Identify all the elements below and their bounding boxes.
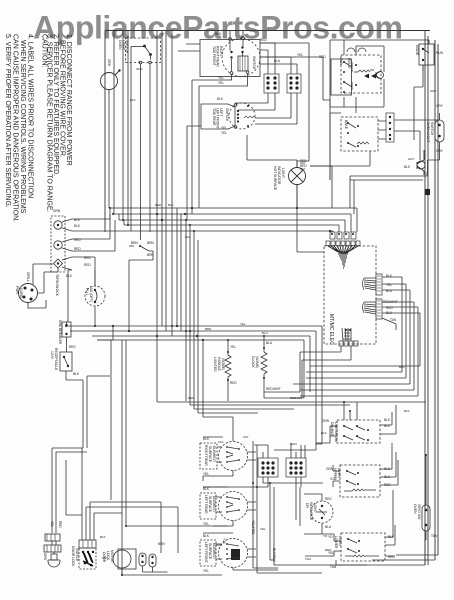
border tick mark — [425, 189, 430, 195]
wires RB2 — [333, 443, 398, 487]
wire x113 down — [97, 326, 113, 500]
wires door switch — [414, 40, 429, 140]
svg-text:HANDLE: HANDLE — [217, 357, 221, 371]
svg-text:RIGHT: RIGHT — [219, 46, 223, 57]
wires S5 — [425, 455, 426, 540]
surface element SE2 — [200, 487, 248, 526]
wires RB1 — [316, 402, 396, 443]
long verticals bottom-center — [253, 441, 322, 573]
wires from SW1 bottom to bus — [131, 47, 150, 241]
relay box K1 (double line lock) — [331, 48, 381, 95]
wires RB3 — [305, 490, 395, 556]
svg-text:DR: DR — [305, 503, 309, 508]
svg-text:SURFACE: SURFACE — [208, 543, 212, 560]
svg-text:BLK: BLK — [404, 409, 410, 413]
connector CN3 (3x3 grid) — [258, 458, 278, 477]
junction dots on bus — [156, 207, 331, 232]
connector J2 (pin column) — [386, 113, 394, 142]
svg-text:BLK: BLK — [130, 98, 136, 102]
svg-text:RED: RED — [325, 548, 332, 552]
svg-text:VENT SW: VENT SW — [417, 504, 421, 520]
svg-text:INDICATOR: INDICATOR — [277, 166, 281, 185]
svg-text:SWITCH: SWITCH — [430, 122, 434, 136]
svg-text:TOD FRONT: TOD FRONT — [212, 46, 216, 66]
svg-text:LIGHTED: LIGHTED — [213, 357, 217, 372]
svg-text:DOOR LOCK: DOOR LOCK — [71, 546, 75, 567]
svg-text:RED: RED — [69, 345, 76, 349]
wires left column (from top border down) — [109, 31, 150, 240]
right border bundle — [425, 31, 438, 565]
svg-text:DLB: DLB — [339, 58, 343, 65]
bottom border joins — [372, 555, 438, 565]
wire x122,x126 down — [122, 340, 227, 575]
svg-text:WHEN SERVICING CONTROLS. WIRIN: WHEN SERVICING CONTROLS. WIRING PROBLEMS — [19, 40, 26, 214]
bake relay RB1 (bottom right dashed box) — [322, 418, 391, 443]
svg-text:RED: RED — [84, 263, 91, 267]
svg-text:GRY: GRY — [408, 157, 414, 161]
svg-text:MOTOR: MOTOR — [110, 550, 114, 563]
svg-text:BLK: BLK — [168, 203, 174, 207]
svg-text:YEL: YEL — [240, 322, 246, 326]
door lock motor M1 — [102, 549, 136, 569]
wire from S4 — [129, 246, 153, 331]
wire x157 x162 to bus2 — [157, 232, 162, 402]
connector P6 bottom of board — [339, 328, 358, 346]
svg-text:LIGHT: LIGHT — [313, 503, 317, 513]
svg-text:MT/MC ELEC: MT/MC ELEC — [328, 314, 334, 345]
svg-text:BLU: BLU — [262, 331, 268, 335]
wire x157 — [156, 31, 158, 232]
svg-text:TAN: TAN — [330, 565, 337, 569]
verticals x177-x203 down to bends — [177, 208, 203, 417]
door lock switch assembly — [71, 540, 96, 569]
transistor Q2 junction right — [404, 150, 425, 175]
svg-text:BRN: BRN — [216, 543, 222, 547]
svg-text:GRN: GRN — [322, 419, 330, 423]
wires between SW1 and B2 — [157, 31, 248, 336]
svg-text:4. LABEL ALL WIRES PRIOR TO DI: 4. LABEL ALL WIRES PRIOR TO DISCONNECTIO… — [27, 34, 34, 198]
svg-text:TAN: TAN — [431, 534, 438, 538]
wires below connectors — [203, 441, 367, 573]
svg-text:RIGHT REAR: RIGHT REAR — [204, 445, 208, 466]
svg-text:GRN: GRN — [53, 209, 61, 213]
wires right of board to right column — [293, 277, 420, 396]
svg-text:BLK: BLK — [384, 418, 391, 422]
svg-text:15A (OPT): 15A (OPT) — [89, 286, 93, 302]
svg-text:BLK: BLK — [203, 534, 210, 538]
MT/MC ELEC control board (dashed box) — [324, 246, 376, 345]
relay coil — [358, 70, 370, 72]
svg-text:YEL: YEL — [203, 522, 209, 526]
svg-text:V10: V10 — [243, 435, 249, 439]
svg-text:BRN: BRN — [131, 241, 138, 245]
svg-text:TAN: TAN — [390, 318, 397, 322]
labels right of board — [383, 274, 398, 322]
labels near B2 — [215, 32, 326, 85]
svg-text:YEL: YEL — [221, 126, 227, 130]
svg-text:DOOR: DOOR — [415, 45, 419, 56]
door lock indicator light L3 (dashed circle) — [305, 497, 333, 529]
wire x114 — [113, 31, 115, 214]
labels near B5 — [217, 97, 227, 135]
top border — [105, 30, 430, 32]
transistor Q1 — [376, 71, 384, 79]
scattered wire labels — [100, 67, 436, 561]
svg-text:910: 910 — [300, 161, 305, 165]
svg-text:YEL: YEL — [221, 131, 227, 135]
labels near terminal block — [53, 209, 91, 278]
svg-text:FU-1: FU-1 — [85, 288, 89, 296]
door switch S2 (top right) — [415, 40, 444, 71]
TAN wire bottom — [336, 540, 425, 565]
svg-text:RED: RED — [58, 521, 62, 528]
svg-text:YEL: YEL — [260, 527, 266, 531]
mini breaker CB1 — [58, 320, 76, 352]
svg-text:CORD: CORD — [19, 288, 23, 299]
wires SE3 — [203, 533, 278, 570]
svg-text:GRN: GRN — [43, 553, 47, 561]
svg-text:BLK: BLK — [215, 32, 222, 36]
svg-text:RUN: RUN — [436, 51, 444, 55]
wires R2 — [264, 336, 302, 398]
wires left/bottom of board — [274, 185, 351, 450]
svg-text:OVEN: OVEN — [413, 504, 417, 514]
harness fan-in below P3 — [328, 246, 358, 268]
connector P4 right of board (upper) — [363, 274, 383, 295]
svg-text:RED/WHT: RED/WHT — [266, 387, 281, 391]
svg-text:BLK: BLK — [185, 235, 191, 239]
wire RED down to indicator — [260, 43, 309, 167]
wires SE1 — [203, 437, 256, 481]
junction dots scattered — [65, 207, 427, 576]
horizontal bus bundle 2 (4 wires) — [66, 326, 322, 450]
selector switch S4 (small, BRN) — [131, 241, 154, 257]
120V receptacle — [50, 348, 80, 376]
svg-text:LIGHT: LIGHT — [122, 40, 126, 50]
surface element SE3 — [200, 534, 248, 573]
terminal block TB (three posts) — [51, 216, 65, 297]
svg-text:GRY: GRY — [436, 104, 444, 108]
wires door lock feeds — [66, 460, 178, 575]
connector CN2 (2x3 pin grid) — [287, 74, 301, 93]
svg-text:MINI BREAKER: MINI BREAKER — [58, 320, 62, 345]
svg-text:PWR: PWR — [15, 286, 19, 294]
svg-text:RED: RED — [325, 497, 332, 501]
wire receptacle down-right — [52, 371, 110, 533]
svg-text:SWITCH: SWITCH — [75, 548, 79, 562]
svg-text:TERM BLOCK: TERM BLOCK — [55, 274, 59, 297]
harness verticals from bus2 to bottom-left — [82, 336, 97, 515]
wire x109 — [108, 94, 110, 209]
svg-text:YEL: YEL — [297, 53, 303, 57]
svg-text:BRN: BRN — [158, 542, 165, 546]
svg-text:BLU: BLU — [325, 525, 332, 529]
svg-text:RED: RED — [230, 381, 237, 385]
wire bend out of B5 left — [187, 126, 201, 220]
svg-text:BLK: BLK — [203, 487, 210, 491]
svg-text:GRY: GRY — [430, 89, 436, 93]
clock resistor R2 (vertical zigzag) — [251, 341, 281, 391]
svg-text:BLK: BLK — [74, 218, 81, 222]
wires around K1 — [330, 40, 414, 180]
fuse FU-1 (dashed circle) — [85, 270, 105, 326]
wire bends right at y401-417 — [157, 401, 426, 441]
wire RED x323 — [260, 57, 330, 107]
main horizontal bus bundle (5 wires) — [110, 208, 357, 232]
svg-text:RED: RED — [74, 238, 81, 242]
svg-text:RED: RED — [155, 203, 162, 207]
svg-text:RIGHT REAR: RIGHT REAR — [216, 46, 220, 67]
svg-text:120V: 120V — [50, 351, 54, 360]
svg-text:YEL: YEL — [203, 569, 209, 573]
left border — [104, 31, 106, 233]
svg-text:BAKE: BAKE — [344, 120, 348, 130]
svg-text:DOUBLE: DOUBLE — [330, 422, 334, 437]
latch switch resistor R1 (vertical zigzag) — [213, 345, 237, 401]
svg-text:RED/WHT: RED/WHT — [290, 396, 304, 400]
svg-text:INDICATOR: INDICATOR — [309, 502, 313, 521]
svg-text:LEFT FRONT: LEFT FRONT — [204, 542, 208, 563]
svg-text:GRN: GRN — [107, 59, 111, 67]
svg-text:TOD REAR: TOD REAR — [212, 108, 216, 126]
svg-text:BRN: BRN — [147, 241, 154, 245]
svg-text:RED: RED — [188, 396, 195, 400]
svg-text:CAN CAUSE IMPROPER AND DANGERO: CAN CAUSE IMPROPER AND DANGEROUS OPERATI… — [12, 34, 19, 222]
svg-text:HOT SURFACE: HOT SURFACE — [273, 166, 277, 191]
relay box K2 (bake relay) — [341, 117, 378, 151]
svg-text:RED: RED — [74, 247, 81, 251]
svg-text:LINE BREAK: LINE BREAK — [334, 422, 338, 443]
connector pair and oven lamp bottom left — [43, 521, 62, 567]
svg-text:5. VERIFY PROPER OPERATION AFT: 5. VERIFY PROPER OPERATION AFTER SERVICI… — [4, 34, 11, 208]
notes text items 4-5 (rotated 90deg, reverse column order) — [4, 34, 34, 222]
long verticals center-left — [97, 208, 426, 575]
broil relay RB2 (dashed box) — [326, 465, 391, 497]
svg-text:BLK: BLK — [203, 437, 210, 441]
svg-text:Y10: Y10 — [222, 538, 226, 544]
svg-text:ELEMENT: ELEMENT — [212, 446, 216, 462]
wire plug to fuse area — [28, 280, 46, 309]
svg-text:LEFT: LEFT — [219, 108, 223, 116]
svg-text:(SOME): (SOME) — [221, 358, 225, 370]
wires from terminal block — [33, 208, 129, 322]
svg-text:SURFACE: SURFACE — [208, 496, 212, 513]
wire bend into B2 top — [178, 44, 200, 51]
svg-text:YEL: YEL — [218, 76, 224, 80]
bus turns down at right into MT/MC connector — [333, 208, 357, 232]
junction dots bus2 — [112, 325, 204, 341]
svg-text:180: 180 — [102, 556, 107, 560]
svg-text:RELAY: RELAY — [347, 58, 351, 70]
svg-text:SWITCH: SWITCH — [225, 108, 229, 122]
svg-text:BLK/BLK: BLK/BLK — [272, 548, 276, 562]
oven light switch SW1 (dashed box top-left) — [118, 38, 161, 64]
connector CN1 (2x3 pin grid) — [264, 74, 279, 93]
power cord plug P1 — [15, 272, 38, 303]
svg-text:BLK: BLK — [100, 535, 106, 539]
wire pair x123,x128 — [123, 31, 128, 226]
svg-text:BLK: BLK — [399, 365, 405, 369]
svg-text:LIGHT: LIGHT — [281, 168, 285, 178]
connector P3 top of board (squares row) — [326, 232, 360, 246]
surface unit switch B2 (top solid box with dashed circle) — [200, 31, 260, 77]
svg-text:SWITCH: SWITCH — [252, 56, 256, 70]
cam switch S6 — [139, 553, 146, 566]
svg-text:CAUTION:: CAUTION: — [41, 34, 48, 68]
svg-text:YEL: YEL — [203, 472, 209, 476]
svg-text:910: 910 — [300, 167, 305, 171]
svg-text:OVEN: OVEN — [118, 40, 122, 50]
svg-text:V10: V10 — [218, 440, 224, 444]
broil relay RB3 (bottom dashed box) — [328, 533, 395, 569]
svg-text:BLK: BLK — [74, 224, 81, 228]
oven light L1 (circle with tail) — [101, 59, 121, 94]
svg-text:BLU: BLU — [266, 341, 273, 345]
svg-text:OVEN LIGHT: OVEN LIGHT — [426, 122, 430, 143]
cam switch S7 — [149, 542, 165, 567]
wire x162,x166,x172 — [162, 31, 172, 336]
svg-text:YEL: YEL — [230, 345, 236, 349]
connector CN4 (3x3 grid) — [286, 458, 306, 477]
notes text items 1-3 + CAUTION (rotated 90deg, reverse column order) — [41, 34, 73, 213]
svg-text:RED: RED — [84, 256, 91, 260]
svg-text:SURFACE: SURFACE — [208, 446, 212, 463]
svg-text:CLOCK: CLOCK — [251, 356, 255, 368]
wire from Q2 bend down — [310, 160, 440, 214]
oven light switch S3 (right oval) — [426, 104, 444, 153]
svg-text:ELEMENT: ELEMENT — [212, 496, 216, 512]
svg-text:RED: RED — [260, 38, 267, 42]
svg-text:OVEN: OVEN — [337, 468, 341, 478]
wires L3 — [304, 494, 322, 534]
svg-text:BRN: BRN — [205, 327, 211, 331]
svg-text:YEL: YEL — [218, 81, 224, 85]
svg-text:RECEPTACLE: RECEPTACLE — [54, 348, 58, 371]
svg-text:GRN: GRN — [136, 67, 143, 71]
svg-text:TAN: TAN — [305, 557, 311, 561]
surface unit switch B5 (solid box with dashed circle) — [201, 103, 255, 129]
wire R1 top — [227, 340, 229, 346]
wires from B2 right to connectors — [235, 43, 330, 167]
connector P5 right of board (lower) — [363, 299, 383, 319]
wires SE2 — [203, 487, 256, 526]
oven vent switch S5 — [413, 504, 438, 538]
svg-text:YD: YD — [328, 535, 333, 539]
svg-text:BLK: BLK — [73, 372, 80, 376]
svg-text:LEFT FRONT: LEFT FRONT — [216, 108, 220, 129]
wires right of K2 — [330, 107, 440, 180]
B2 bottom terminal wires down to bus — [192, 74, 248, 215]
svg-text:GRN-L: GRN-L — [26, 272, 30, 282]
svg-text:BLK: BLK — [321, 431, 327, 435]
hot surface indicator light L2 — [273, 159, 307, 208]
svg-text:BLK: BLK — [66, 274, 73, 278]
surface element SE1 (dashed circle + box) — [200, 437, 248, 476]
svg-text:(SOME): (SOME) — [255, 356, 259, 368]
svg-text:LOWER: LOWER — [334, 536, 338, 549]
svg-text:YEL/RED: YEL/RED — [251, 520, 255, 535]
svg-text:V10: V10 — [330, 477, 336, 481]
svg-text:YEL: YEL — [50, 521, 54, 527]
svg-text:LEFT REAR: LEFT REAR — [204, 495, 208, 514]
svg-text:BLK: BLK — [404, 165, 411, 169]
wires feeding L2 — [247, 135, 370, 166]
svg-text:GRN: GRN — [290, 442, 297, 446]
svg-text:BLK: BLK — [217, 97, 224, 101]
